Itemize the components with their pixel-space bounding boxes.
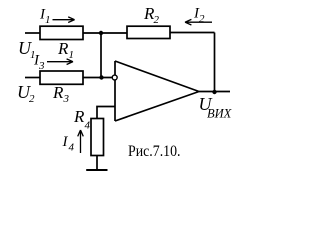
resistor R3 <box>40 71 83 84</box>
current I2 arrow <box>185 19 212 25</box>
wire R4 to ground <box>96 156 98 170</box>
svg-text:I: I <box>62 134 69 150</box>
node summing junction <box>99 31 103 35</box>
label U1 <box>18 38 36 61</box>
svg-text:ВИХ: ВИХ <box>207 107 233 121</box>
svg-text:3: 3 <box>38 60 45 72</box>
wire R2 to feedback corner <box>170 32 215 34</box>
resistor R4 <box>91 119 104 156</box>
ground <box>86 169 107 171</box>
svg-text:Рис.7.10.: Рис.7.10. <box>128 143 181 160</box>
svg-text:R: R <box>57 39 69 58</box>
label U output <box>199 94 233 121</box>
current I4 arrow <box>78 130 84 153</box>
wire feedback vertical <box>214 33 216 93</box>
svg-text:1: 1 <box>69 49 75 61</box>
node output junction <box>212 90 216 94</box>
svg-text:R: R <box>73 107 85 126</box>
wire U1 input <box>25 32 40 34</box>
inverting input bubble <box>112 75 117 80</box>
svg-text:4: 4 <box>85 120 91 132</box>
svg-text:1: 1 <box>45 14 51 26</box>
current I4 label <box>62 134 75 154</box>
current I1 arrow <box>53 17 75 23</box>
svg-text:2: 2 <box>154 14 160 26</box>
label R2 <box>143 4 160 26</box>
wire summing node vertical <box>100 33 102 78</box>
svg-text:2: 2 <box>199 13 205 25</box>
svg-text:3: 3 <box>63 93 70 105</box>
current I2 label <box>193 6 205 26</box>
wire non-inverting input <box>97 107 115 119</box>
current I3 arrow <box>47 59 73 65</box>
resistor R1 <box>40 26 83 39</box>
wire R3 to inverting input <box>83 77 112 79</box>
svg-text:R: R <box>52 83 64 102</box>
svg-text:2: 2 <box>29 93 35 105</box>
node inverting branch junction <box>99 75 103 79</box>
label U2 <box>17 82 35 105</box>
wire U2 input <box>25 77 40 79</box>
current I3 label <box>33 53 45 73</box>
wire output <box>199 91 230 93</box>
wire R1 to summing node <box>83 32 127 34</box>
resistor R2 <box>127 26 170 38</box>
label R1 <box>57 39 74 61</box>
op-amp <box>115 61 199 121</box>
current I1 label <box>39 7 51 27</box>
label R4 <box>73 107 91 132</box>
svg-text:4: 4 <box>69 142 75 154</box>
label R3 <box>52 83 70 105</box>
caption <box>128 143 181 160</box>
